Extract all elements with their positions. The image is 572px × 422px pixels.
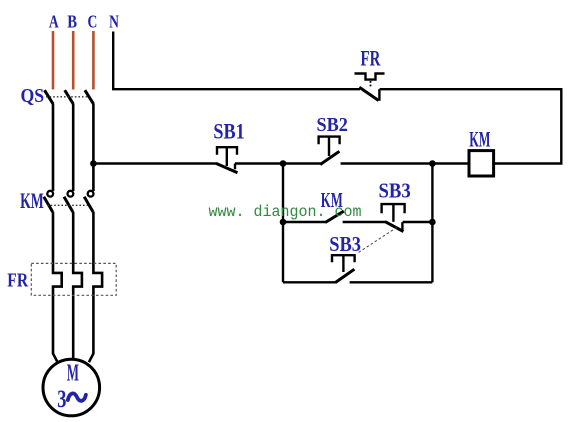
svg-text:C: C bbox=[88, 11, 98, 31]
svg-text:SB2: SB2 bbox=[317, 114, 348, 136]
svg-text:KM: KM bbox=[469, 127, 490, 152]
svg-text:KM: KM bbox=[20, 188, 44, 213]
svg-text:SB3: SB3 bbox=[329, 232, 361, 256]
svg-text:SB1: SB1 bbox=[213, 118, 244, 143]
svg-text:M: M bbox=[67, 360, 79, 386]
svg-text:FR: FR bbox=[361, 46, 382, 71]
svg-text:www. diangon. com: www. diangon. com bbox=[209, 203, 362, 221]
svg-text:3: 3 bbox=[57, 386, 66, 413]
svg-text:B: B bbox=[67, 11, 77, 31]
svg-text:QS: QS bbox=[21, 85, 45, 107]
svg-text:N: N bbox=[109, 11, 119, 31]
svg-text:SB3: SB3 bbox=[379, 179, 411, 203]
svg-text:FR: FR bbox=[7, 270, 28, 292]
svg-text:A: A bbox=[49, 11, 59, 31]
